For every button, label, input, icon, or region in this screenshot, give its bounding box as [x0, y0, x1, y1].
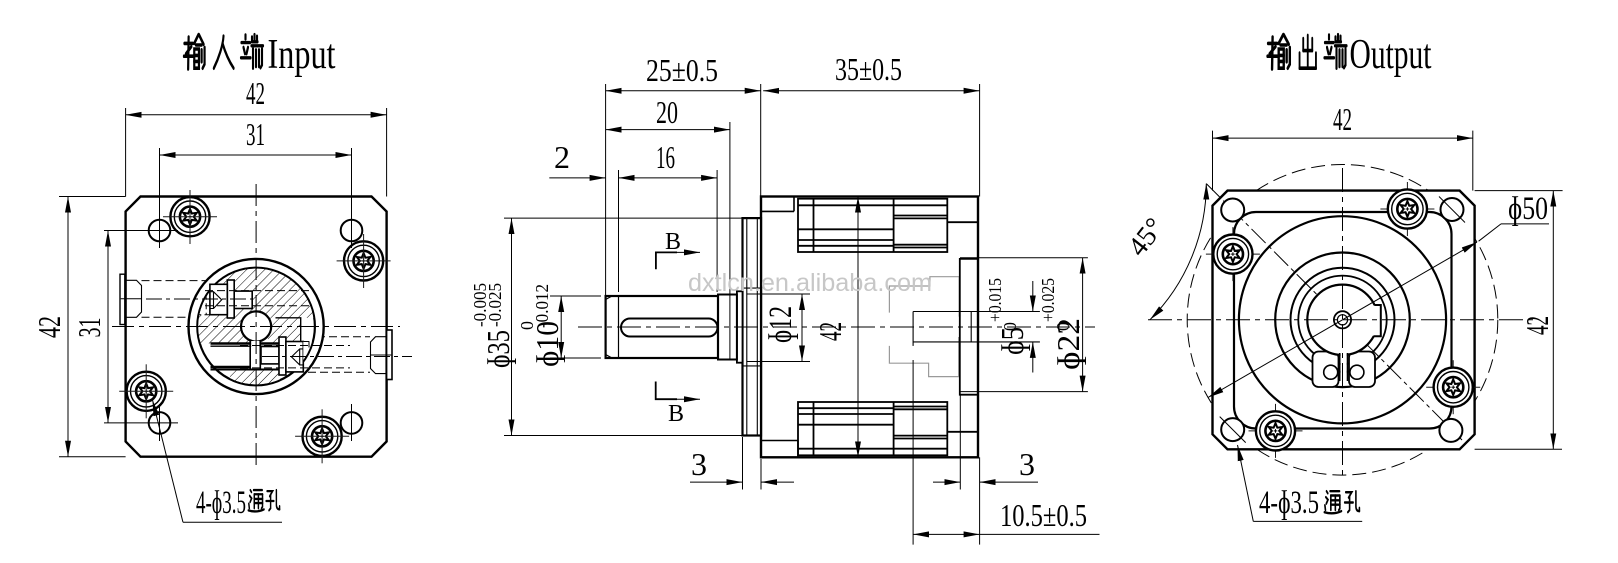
- dim 42 body: [857, 197, 859, 458]
- title 输出端Output: [1268, 35, 1290, 69]
- dim 42 right: [1475, 191, 1563, 450]
- centerlines: [1148, 319, 1537, 321]
- svg-text:35±0.5: 35±0.5: [835, 51, 902, 87]
- svg-text:Input: Input: [268, 32, 336, 78]
- left socket screw shaft: [234, 291, 252, 308]
- dim 3 right: [933, 395, 1038, 545]
- plain holes: [1221, 199, 1244, 222]
- axis centerline: [578, 326, 1095, 328]
- phi22 output recess: [960, 259, 978, 395]
- internal gray step profile top: [889, 277, 959, 317]
- hatched carrier sections: [197, 267, 315, 386]
- svg-text:4-ɸ3.5: 4-ɸ3.5: [1259, 485, 1319, 521]
- top bolt cavity: [798, 199, 978, 252]
- dim 10.5+-0.5: [913, 360, 1099, 545]
- svg-text:B: B: [668, 401, 684, 427]
- svg-text:20: 20: [656, 94, 678, 130]
- square flange outline with chamfered corners: [1213, 191, 1475, 450]
- phi50 bolt circle dashed: [1187, 164, 1498, 475]
- svg-text:3: 3: [691, 446, 707, 482]
- bearing housing outer circle: [189, 259, 324, 394]
- svg-text:3: 3: [1019, 446, 1035, 482]
- svg-text:31: 31: [246, 116, 265, 152]
- svg-text:4-ɸ3.5: 4-ɸ3.5: [196, 485, 246, 521]
- output bearing thin lines: [913, 312, 1040, 346]
- dim 31 top: [160, 148, 352, 248]
- right socket screw shaft: [261, 347, 279, 364]
- dim 25+-0.5: [606, 84, 761, 296]
- svg-text:25±0.5: 25±0.5: [646, 52, 718, 88]
- hidden lines right pair: [305, 336, 370, 338]
- output bore with keyway: [1307, 285, 1377, 355]
- output shaft phi10: [606, 296, 718, 358]
- keyway slot: [621, 319, 718, 337]
- dim phi10: [550, 296, 601, 358]
- title 输入端Input: [184, 35, 205, 69]
- phi12 step: [718, 295, 737, 360]
- svg-text:0: 0: [1000, 322, 1020, 331]
- svg-text:ɸ12: ɸ12: [763, 306, 799, 343]
- body bottom-left notch: [761, 441, 798, 458]
- internal gray step profile bottom: [889, 337, 958, 377]
- dim phi35: [504, 218, 743, 435]
- svg-text:dxtlcn.en.alibaba.com: dxtlcn.en.alibaba.com: [688, 269, 932, 297]
- dim 3 left: [690, 437, 794, 490]
- torx screw bottom-right: [303, 417, 342, 456]
- svg-text:2: 2: [554, 139, 570, 175]
- bearing bore circle: [1291, 268, 1395, 372]
- dim 42 left: [59, 197, 126, 457]
- svg-text:ɸ35: ɸ35: [480, 330, 516, 368]
- central slot below hole: [250, 340, 260, 369]
- phi35 pilot plate: [743, 218, 762, 435]
- svg-text:42: 42: [1333, 101, 1352, 137]
- svg-text:B: B: [665, 229, 681, 255]
- step edge right of hole: [276, 318, 301, 344]
- phi50 label: [1479, 224, 1501, 241]
- left screw washer: [227, 280, 234, 318]
- svg-text:Output: Output: [1350, 32, 1432, 78]
- right screw washer: [279, 337, 286, 375]
- right screw head with hex socket: [286, 342, 303, 372]
- collar: [737, 291, 743, 362]
- left tab boss profile: [126, 280, 142, 317]
- svg-text:ɸ50: ɸ50: [1508, 191, 1548, 227]
- bearing housing inner circle: [197, 268, 315, 386]
- phi35 pilot circle: [1239, 216, 1446, 423]
- plain hole top-left: [149, 220, 171, 242]
- svg-text:31: 31: [71, 318, 107, 338]
- label 4-phi3.5 through hole: [183, 521, 282, 523]
- screw crosshairs: [1206, 182, 1480, 458]
- svg-text:+0.025: +0.025: [1038, 278, 1058, 322]
- shaft tip chamfer: [606, 296, 619, 358]
- 45 deg hole centerline diagonal: [1206, 184, 1462, 440]
- dim 20: [606, 122, 730, 360]
- carrier plate double lines: [211, 342, 285, 344]
- svg-text:+0.015: +0.015: [985, 278, 1005, 322]
- dim 31 left: [104, 231, 352, 442]
- central sun gear hole: [241, 311, 271, 341]
- gearbox body outline: [761, 197, 978, 458]
- plain hole top-right: [341, 220, 363, 242]
- dim 42 top: [126, 108, 387, 197]
- dim phi22: [960, 258, 1088, 392]
- section mark B bottom: [656, 382, 677, 400]
- label 4-phi3.5 through hole: [1253, 520, 1362, 522]
- svg-text:42: 42: [1519, 316, 1555, 335]
- dim phi12: [747, 294, 810, 362]
- right screw pocket (hidden): [303, 342, 317, 372]
- left screw head with hex socket: [210, 284, 227, 314]
- bottom bolt cavity: [798, 402, 978, 455]
- svg-text:0: 0: [1053, 322, 1073, 331]
- circlip outer circle: [1298, 276, 1386, 364]
- rounded square body profile: [1234, 212, 1452, 429]
- hidden lines left pair: [142, 280, 213, 282]
- centerlines: [112, 184, 412, 470]
- body top-left notch: [761, 197, 794, 212]
- svg-text:-0.012: -0.012: [532, 284, 552, 328]
- dim phi5: [1032, 281, 1034, 373]
- dim 42 top: [1213, 131, 1473, 191]
- square flange outline with chamfered corners: [126, 197, 387, 457]
- left coupling tab: [120, 274, 125, 324]
- dim 2: [549, 177, 605, 179]
- center hole: [1334, 311, 1351, 328]
- dim 16: [619, 170, 718, 292]
- phi50 diameter dimension diagonal: [1208, 242, 1477, 397]
- svg-text:42: 42: [246, 75, 265, 111]
- circlip gap: [1341, 352, 1347, 380]
- dim 35+-0.5: [763, 84, 979, 197]
- svg-text:-0.025: -0.025: [485, 283, 505, 327]
- right tab boss profile: [371, 337, 387, 374]
- right coupling tab: [387, 330, 392, 380]
- 45deg arc dimension: [1150, 184, 1206, 320]
- bearing housing circle: [1275, 252, 1410, 387]
- plain hole bottom-left: [149, 412, 171, 434]
- svg-text:42: 42: [31, 316, 67, 338]
- screw crosshairs: [119, 190, 390, 463]
- torx screws: [1213, 235, 1252, 274]
- torx screw top-right: [344, 241, 383, 280]
- svg-text:10.5±0.5: 10.5±0.5: [1000, 497, 1087, 533]
- torx screw bottom-left: [127, 372, 166, 411]
- circlip lugs: [1313, 352, 1339, 388]
- plain hole bottom-right: [341, 412, 363, 434]
- anti-diagonal ticks through TR and BL holes: [1439, 197, 1465, 223]
- section mark B top: [656, 252, 677, 269]
- torx screw top-left: [170, 197, 209, 236]
- hidden dashed lines screw bores: [205, 290, 310, 292]
- circlip lug holes: [1324, 365, 1338, 379]
- left screw pocket (hidden): [195, 284, 210, 314]
- svg-text:16: 16: [656, 139, 675, 175]
- svg-text:42: 42: [812, 322, 848, 341]
